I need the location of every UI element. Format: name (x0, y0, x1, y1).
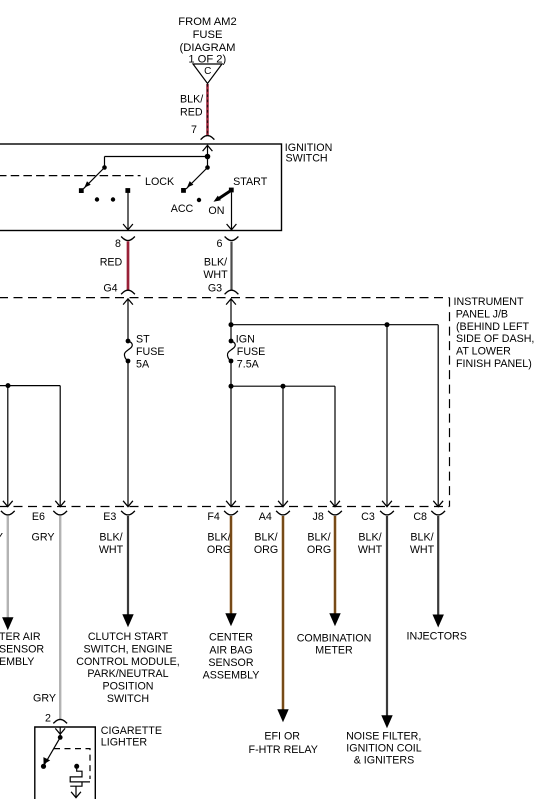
svg-text:CENTER: CENTER (209, 632, 253, 644)
cup C8 (431, 511, 445, 515)
fuse ST element (124, 341, 132, 361)
wire bus to J8 (231, 385, 335, 387)
wire BLK/ORG A4 (282, 516, 285, 710)
SECTION: bottom outputs (0, 501, 467, 767)
fuse ST terminal (126, 339, 131, 344)
svg-text:E6: E6 (32, 511, 45, 523)
svg-text:EMBLY: EMBLY (0, 656, 34, 668)
svg-text:IGNITION COIL: IGNITION COIL (346, 743, 421, 755)
node left branch (6, 383, 11, 388)
svg-text:METER: METER (315, 645, 353, 657)
cigarette lighter box (35, 727, 96, 799)
junction block boundary dashed top (0, 297, 450, 299)
node junction (205, 154, 211, 160)
svg-text:ORG: ORG (207, 544, 231, 556)
svg-text:SWITCH, ENGINE: SWITCH, ENGINE (83, 643, 172, 655)
wire IGN fuse to F4 (230, 361, 232, 506)
arrow to air bag (225, 613, 236, 626)
svg-text:G4: G4 (103, 282, 117, 294)
connector cup pin 8 (121, 237, 135, 241)
svg-text:C3: C3 (361, 511, 375, 523)
svg-text:RED: RED (100, 257, 123, 269)
svg-text:LIGHTER: LIGHTER (101, 737, 148, 749)
svg-text:F-HTR RELAY: F-HTR RELAY (249, 744, 318, 756)
svg-text:E3: E3 (103, 511, 116, 523)
contact dot (58, 735, 63, 740)
svg-text:AIR BAG: AIR BAG (209, 644, 252, 656)
wire IGN bus right (231, 324, 438, 326)
arrow A4 (278, 501, 288, 507)
svg-text:SWITCH: SWITCH (107, 693, 149, 705)
cup E6 (53, 511, 67, 515)
svg-text:2: 2 (45, 713, 51, 725)
cup C3 (380, 511, 394, 515)
connector cup pin 2 (53, 719, 67, 723)
svg-text:ORG: ORG (307, 544, 331, 556)
svg-text:FUSE: FUSE (237, 346, 266, 358)
svg-text:(DIAGRAM: (DIAGRAM (180, 42, 236, 54)
svg-text:FUSE: FUSE (136, 346, 165, 358)
mechanical link dashed (54, 749, 90, 779)
arrow C3 (382, 501, 392, 507)
svg-text:START: START (233, 176, 268, 188)
svg-text:GRY: GRY (32, 532, 55, 544)
arrow to injectors (433, 615, 444, 628)
contact dot (111, 197, 115, 201)
node IGN branch (229, 322, 234, 327)
heater element terminal (74, 764, 79, 769)
svg-text:& IGNITERS: & IGNITERS (354, 755, 415, 767)
svg-text:WHT: WHT (410, 544, 435, 556)
svg-text:CONTROL MODULE,: CONTROL MODULE, (76, 656, 180, 668)
arrow to combination meter (329, 613, 340, 626)
svg-text:COMBINATION: COMBINATION (297, 633, 372, 645)
contact dot (95, 197, 99, 201)
cup J8 (328, 511, 342, 515)
svg-text:A4: A4 (259, 511, 272, 523)
svg-text:GRY: GRY (33, 693, 56, 705)
svg-text:WHT: WHT (99, 544, 124, 556)
svg-text:CLUTCH START: CLUTCH START (88, 631, 169, 643)
wire BLK/WHT pin6 to G3 (230, 242, 232, 290)
svg-text:BLK/: BLK/ (99, 532, 122, 544)
wire pin7 to node (207, 145, 209, 167)
junction block boundary dashed bottom (0, 506, 450, 508)
contact dot ACC (197, 198, 201, 202)
mechanical link dashed (0, 175, 141, 177)
cup A4 (276, 511, 290, 515)
heater element zigzag (70, 766, 90, 791)
arrow to air sensor (2, 617, 13, 630)
svg-text:ASSEMBLY: ASSEMBLY (203, 670, 260, 682)
arrow to clutch start switch (122, 614, 133, 627)
contact pin 8 (125, 188, 130, 193)
wire RED pin8 to G4 (127, 241, 130, 290)
svg-text:7.5A: 7.5A (237, 359, 260, 371)
connector symbol C (triangle) (193, 64, 222, 84)
svg-text:TER AIR: TER AIR (0, 631, 41, 643)
wire BLK/WHT E3 (127, 516, 129, 615)
svg-text:ON: ON (208, 205, 224, 217)
svg-text:5A: 5A (136, 359, 150, 371)
wire G3 to IGN fuse (230, 299, 232, 341)
svg-text:WHT: WHT (203, 269, 228, 281)
svg-text:C: C (204, 66, 211, 77)
arrow pin 8 (123, 224, 133, 230)
wire to A4 (282, 386, 284, 506)
svg-text:BLK/: BLK/ (410, 532, 433, 544)
wiper arrowhead (43, 757, 50, 764)
fuse IGN terminal (229, 339, 234, 344)
wire to pin 6 (231, 193, 233, 230)
wire drop left (104, 157, 106, 168)
arrow output 1 (3, 501, 13, 507)
svg-text:GRY: GRY (0, 532, 3, 544)
svg-text:LOCK: LOCK (145, 176, 175, 188)
wire G4 to ST fuse (127, 299, 129, 341)
node C3 branch (385, 322, 390, 327)
wire BLK/WHT C8 (437, 516, 439, 615)
connector cup pin 6 (225, 237, 239, 241)
arrow into switch at pin 7 (203, 145, 213, 151)
arrow E6 (55, 501, 65, 507)
svg-text:(BEHIND LEFT: (BEHIND LEFT (456, 321, 530, 333)
svg-text:BLK/: BLK/ (307, 532, 330, 544)
svg-text:WHT: WHT (358, 544, 383, 556)
SECTION: ignition switch (0, 142, 332, 295)
contact dot (41, 764, 46, 769)
svg-text:G3: G3 (208, 282, 222, 294)
switch wiper START (bold) (217, 190, 231, 200)
wire to E6 (59, 386, 61, 506)
svg-text:ST: ST (136, 334, 150, 346)
wire bus (105, 156, 208, 158)
svg-text:FINISH PANEL): FINISH PANEL) (456, 358, 532, 370)
switch wiper right (186, 168, 208, 190)
arrow J8 (330, 501, 340, 507)
wire BLK/RED (206, 84, 209, 136)
svg-text:7: 7 (191, 124, 197, 136)
node A4 branch (281, 384, 286, 389)
svg-text:SWITCH: SWITCH (286, 152, 328, 164)
SECTION: cigarette lighter (33, 693, 162, 799)
cup F4 (224, 511, 238, 515)
svg-text:SIDE OF DASH,: SIDE OF DASH, (456, 333, 534, 345)
svg-text:BLK/: BLK/ (254, 532, 277, 544)
svg-text:C8: C8 (413, 511, 427, 523)
svg-text:CIGARETTE: CIGARETTE (101, 725, 162, 737)
svg-text:INJECTORS: INJECTORS (407, 631, 467, 643)
svg-text:F4: F4 (207, 511, 220, 523)
cup E3 (121, 511, 135, 515)
wire to first output (7, 386, 9, 506)
arrow F4 (226, 501, 236, 507)
wiper tip contact (79, 188, 84, 193)
contact pin 6 (229, 188, 234, 193)
wire BLK/WHT C3 (386, 516, 388, 716)
svg-text:RED: RED (180, 107, 203, 119)
wire to J8 (334, 386, 336, 506)
arrow E3 (123, 501, 133, 507)
wire to C8 (437, 325, 439, 506)
wire GRY output 1 (7, 516, 9, 618)
SECTION: top feed (178, 16, 236, 140)
svg-text:BLK/: BLK/ (204, 257, 227, 269)
svg-text:AT LOWER: AT LOWER (456, 346, 511, 358)
arrow C8 (433, 501, 443, 507)
arrow to noise filter (381, 715, 392, 728)
contact dot left bank (102, 165, 107, 170)
wire to pin 8 (127, 192, 129, 229)
connector cup G3 (225, 290, 239, 294)
svg-text:PARK/NEUTRAL: PARK/NEUTRAL (87, 668, 168, 680)
fuse IGN terminal (229, 359, 234, 364)
connector cup G4 (121, 290, 135, 294)
svg-text:6: 6 (217, 238, 223, 250)
svg-text:FUSE: FUSE (193, 29, 223, 41)
wire BLK/ORG J8 (334, 516, 337, 614)
node contact (205, 165, 210, 170)
switch wiper (45, 737, 61, 764)
svg-text:SENSOR: SENSOR (208, 657, 253, 669)
svg-text:BLK/: BLK/ (207, 532, 230, 544)
svg-text:PANEL J/B: PANEL J/B (456, 308, 508, 320)
ignition switch box (0, 144, 282, 231)
arrow into J/B at G4 (123, 299, 133, 305)
wire bus left feed (0, 385, 60, 387)
wire into lighter (59, 727, 61, 738)
svg-text:INSTRUMENT: INSTRUMENT (454, 296, 525, 308)
arrow into lighter (55, 728, 65, 734)
wire BLK/ORG F4 (230, 516, 233, 614)
node below IGN fuse (229, 384, 234, 389)
arrow into J/B at G3 (226, 299, 236, 305)
arrow pin 6 (227, 224, 237, 230)
svg-text:POSITION: POSITION (102, 681, 153, 693)
wiper tip contact (181, 188, 186, 193)
fuse ST terminal (126, 359, 131, 364)
svg-text:IGN: IGN (236, 334, 255, 346)
svg-text:J8: J8 (313, 511, 324, 523)
svg-text:ACC: ACC (171, 203, 194, 215)
connector cup pin 7 (201, 136, 215, 140)
wire to ground arrow (71, 792, 81, 798)
SECTION: junction block (0, 296, 534, 507)
wire GRY E6 to cigarette lighter (59, 516, 61, 719)
svg-text:8: 8 (115, 238, 121, 250)
cup output 1 (1, 511, 15, 515)
svg-text:FROM AM2: FROM AM2 (178, 16, 236, 28)
switch wiper left (84, 168, 105, 189)
arrow to EFI relay (277, 709, 288, 722)
wire ST fuse to E3 (127, 361, 129, 506)
svg-text:ORG: ORG (254, 544, 278, 556)
svg-text:EFI OR: EFI OR (264, 731, 300, 743)
junction block boundary dashed right (449, 298, 451, 507)
wire to C3 (386, 325, 388, 506)
svg-text:SENSOR: SENSOR (0, 644, 44, 656)
fuse IGN element (227, 341, 235, 361)
svg-text:BLK/: BLK/ (358, 532, 381, 544)
svg-text:NOISE FILTER,: NOISE FILTER, (346, 731, 421, 743)
svg-text:BLK/: BLK/ (180, 94, 203, 106)
